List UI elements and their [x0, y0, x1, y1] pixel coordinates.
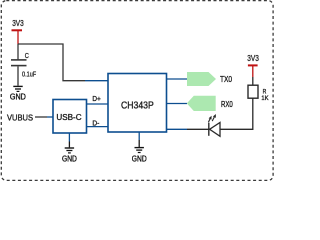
- value label 1K: [261, 95, 269, 102]
- power flag 3V3 (right): [247, 54, 259, 77]
- resistor R 1K: [248, 77, 258, 98]
- wire CH343P to LED cathode: [167, 128, 209, 130]
- wire VCC pin stub into CH343P: [85, 80, 108, 82]
- IC CH343P: [108, 74, 167, 133]
- wire D- (USB-C to CH343P): [87, 126, 109, 128]
- wire VUBUS to USB-C: [35, 116, 53, 118]
- svg-text:VUBUS: VUBUS: [7, 112, 33, 122]
- wire CH343P to ground: [138, 132, 140, 147]
- net flag TX0 (green arrow): [187, 72, 216, 86]
- svg-text:RX0: RX0: [221, 99, 233, 109]
- svg-text:GND: GND: [132, 153, 147, 163]
- net label VUBUS: [7, 112, 33, 122]
- pin label D+: [92, 94, 100, 103]
- wire RXD out of CH343P: [167, 103, 188, 105]
- svg-text:D+: D+: [92, 94, 100, 103]
- ground (below CH343P): [132, 148, 147, 164]
- wire junction down to capacitor C: [17, 44, 19, 59]
- capacitor C 0.1uF: [11, 60, 27, 86]
- svg-text:C: C: [25, 51, 29, 60]
- reference label R: [263, 89, 267, 96]
- net label RX0: [221, 99, 233, 109]
- svg-text:3V3: 3V3: [247, 54, 259, 63]
- wire TXD out of CH343P: [167, 78, 188, 80]
- pin label D-: [92, 118, 99, 127]
- ground (below capacitor): [10, 86, 26, 101]
- svg-text:0.1uF: 0.1uF: [22, 69, 37, 78]
- svg-text:GND: GND: [10, 92, 26, 102]
- ground (below USB-C): [62, 148, 77, 163]
- wire D+ (USB-C to CH343P): [87, 103, 109, 105]
- value label 0.1uF: [22, 69, 37, 78]
- wire LED anode to resistor R: [221, 98, 253, 129]
- power flag 3V3 (left): [12, 19, 25, 44]
- wire 3V3 net to CH343P (VCC): [18, 44, 85, 81]
- label USB-C: [56, 112, 81, 122]
- svg-text:CH343P: CH343P: [121, 100, 154, 111]
- reference label C: [25, 51, 29, 60]
- net flag RX0 (green arrow): [187, 96, 216, 111]
- connector USB-C: [53, 100, 87, 134]
- svg-text:1K: 1K: [261, 95, 269, 102]
- LED indicator: [208, 114, 220, 136]
- svg-text:3V3: 3V3: [12, 19, 24, 28]
- net label TX0: [220, 74, 232, 84]
- svg-text:USB-C: USB-C: [56, 112, 81, 122]
- wire USB-C to ground: [68, 133, 70, 147]
- label CH343P: [121, 100, 154, 111]
- svg-text:TX0: TX0: [220, 74, 232, 84]
- svg-text:GND: GND: [62, 153, 77, 163]
